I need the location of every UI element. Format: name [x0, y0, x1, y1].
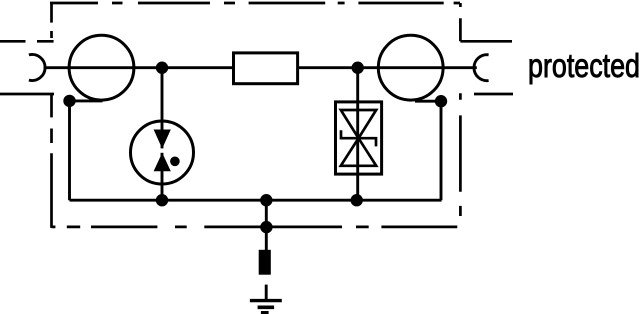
svg-text:protected: protected — [528, 47, 640, 84]
enclosure border right edge (dash-dot) — [459, 3, 462, 216]
enclosure border bottom edge (dash-dot) — [52, 226, 458, 229]
ground symbol bar 1 — [250, 299, 282, 302]
wire: bottom bus — [70, 199, 442, 202]
earthing impedance block — [259, 250, 271, 275]
ground symbol bar 2 — [258, 305, 275, 309]
wire: right side down conductor — [440, 101, 443, 200]
wire: earth branch bus to block — [265, 200, 268, 250]
wire: gas discharge tube branch upper — [161, 68, 164, 149]
wire: main line right section — [299, 66, 477, 69]
node: junction dot main line / suppressor — [352, 61, 364, 73]
wire: left tap stub — [70, 99, 103, 102]
gas discharge tube arrow bottom — [154, 153, 171, 172]
ground symbol bar 3 — [261, 311, 269, 314]
right terminal channel top edge — [460, 40, 512, 43]
ground symbol stem — [265, 285, 268, 301]
wire: gas discharge tube branch lower — [161, 153, 164, 200]
gas discharge tube gas indicator dot — [170, 157, 180, 167]
decoupling element circle right — [378, 35, 443, 100]
right terminal channel bottom edge — [474, 93, 513, 96]
node: junction dot left tap — [63, 95, 75, 107]
enclosure border left edge (dash-dot) — [50, 3, 53, 228]
terminal arc left (incoming line) — [29, 55, 45, 81]
node: junction dot right tap — [435, 95, 447, 107]
node: junction dot bus / GDT — [156, 194, 168, 206]
suppressor diode zener bar — [341, 130, 376, 146]
wire: right tap stub — [415, 100, 441, 103]
decoupling element circle left — [69, 35, 134, 100]
suppressor diode box outline — [336, 102, 382, 174]
resistor R (series impedance) — [234, 53, 298, 84]
suppressor diode triangle bottom — [341, 138, 376, 166]
wire: left side down conductor — [68, 101, 71, 200]
enclosure border top edge (dash-dot) — [50, 2, 460, 5]
node: junction dot bus / earth — [260, 194, 272, 206]
node: junction dot border / earth — [260, 221, 272, 233]
gas discharge tube circle — [131, 121, 194, 184]
terminal arc right (protected side) — [474, 55, 489, 81]
gas discharge tube arrow top — [154, 130, 171, 149]
suppressor diode triangle top — [341, 110, 376, 138]
wire: main line left section — [44, 66, 233, 69]
left terminal channel bottom edge — [0, 93, 54, 96]
node: junction dot bus / suppressor — [351, 194, 363, 206]
node: junction dot main line / GDT — [156, 61, 168, 73]
wire: suppressor diode branch — [356, 68, 359, 201]
left terminal channel top edge — [0, 40, 54, 43]
